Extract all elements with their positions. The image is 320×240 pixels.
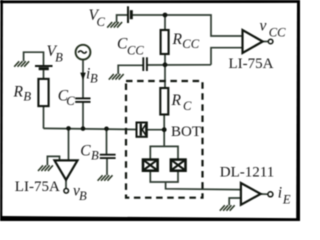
svg-text:LI-75A: LI-75A [15,179,60,195]
svg-text:C: C [97,15,106,29]
svg-text:i: i [278,185,282,202]
svg-text:CC: CC [127,43,144,57]
svg-text:C: C [66,94,75,108]
svg-text:DL-1211: DL-1211 [220,165,274,181]
svg-text:v: v [260,18,267,35]
svg-text:LI-75A: LI-75A [229,56,274,72]
svg-text:R: R [171,92,182,109]
svg-text:B: B [55,51,63,65]
svg-text:CC: CC [269,26,286,40]
svg-text:B: B [23,90,31,104]
svg-text:BOT: BOT [171,124,201,140]
svg-text:R: R [13,83,24,100]
svg-text:CC: CC [182,37,199,51]
svg-text:B: B [90,72,98,86]
svg-text:C: C [80,142,91,159]
svg-text:C: C [183,99,192,113]
svg-text:E: E [282,193,291,207]
svg-text:B: B [91,149,99,163]
svg-text:R: R [172,31,183,48]
svg-text:B: B [79,189,87,203]
